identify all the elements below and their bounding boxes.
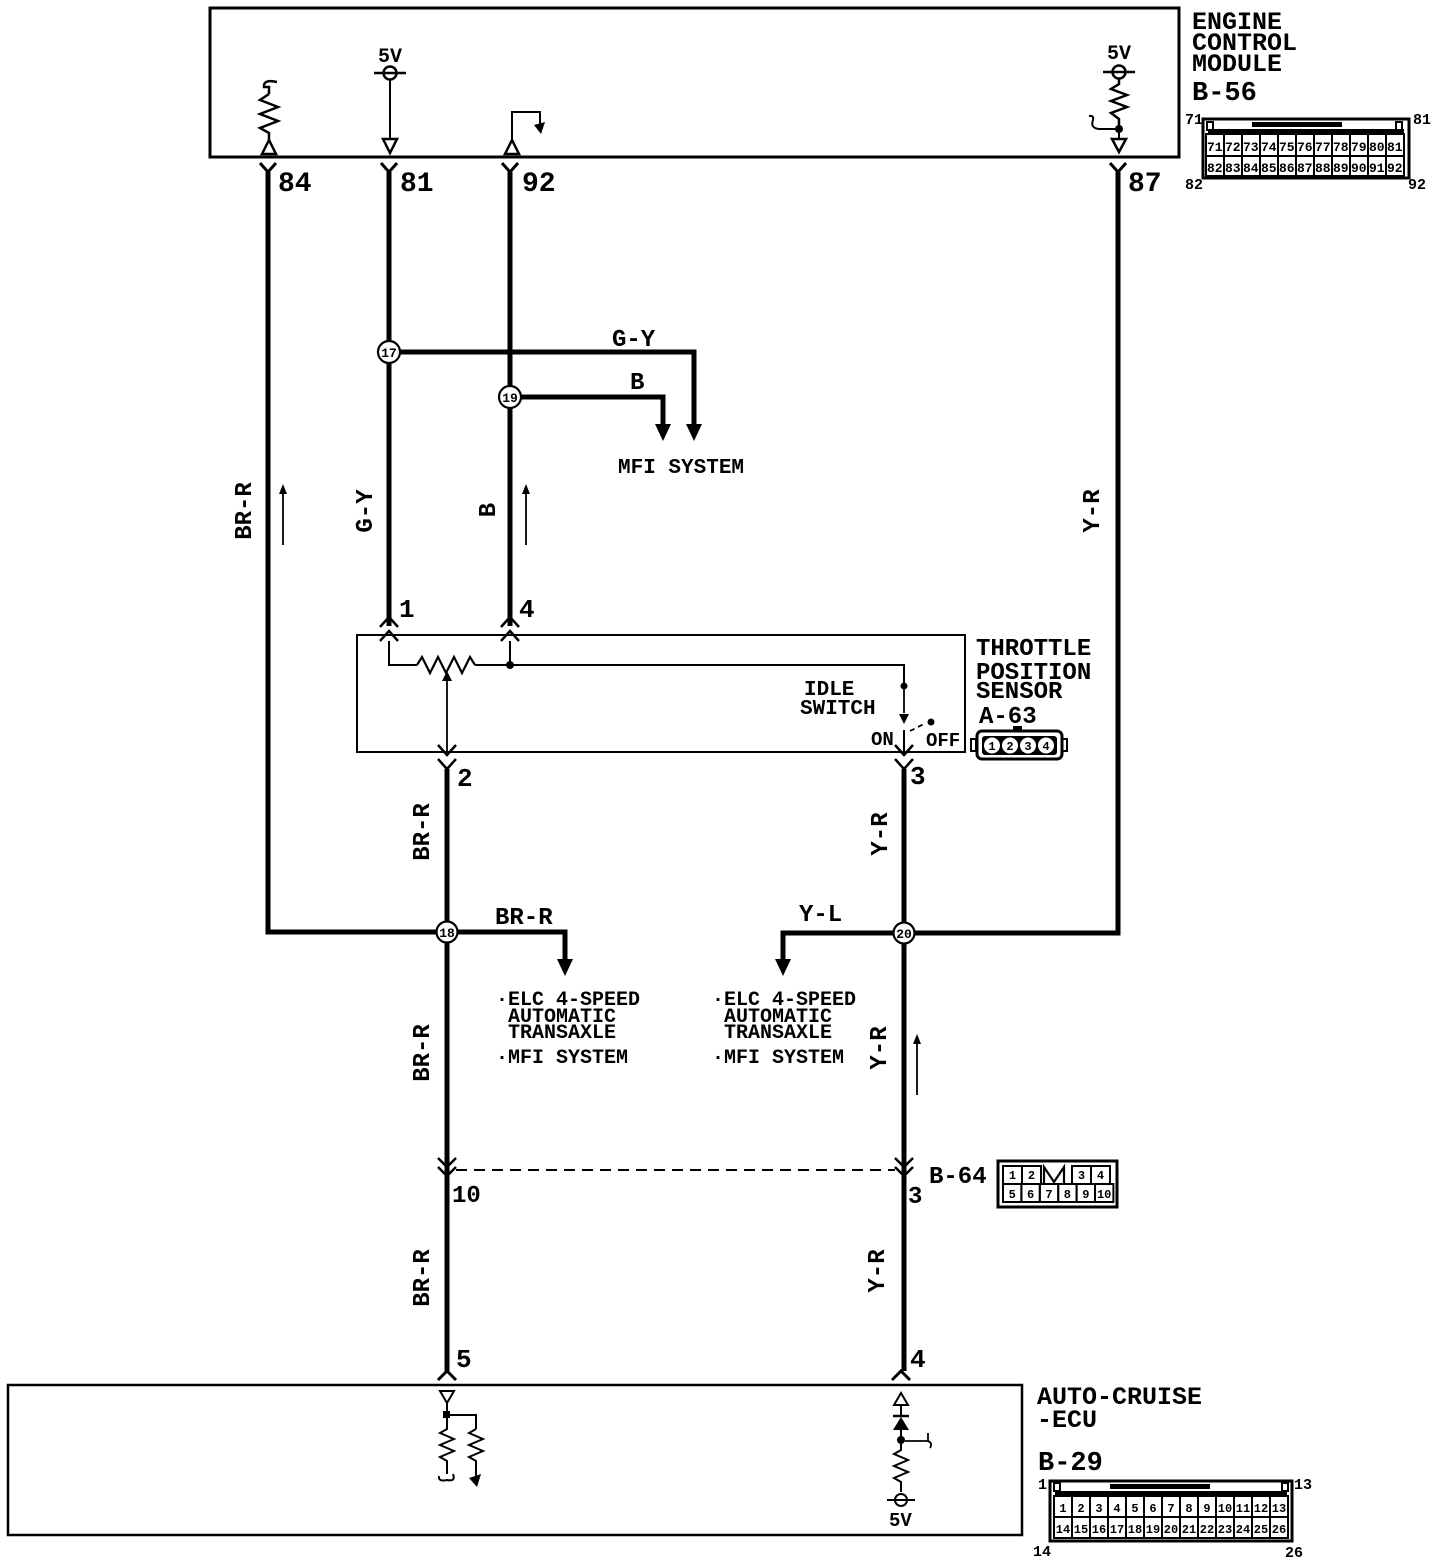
junction dot pin 87 xyxy=(1115,125,1123,133)
svg-text:SENSOR: SENSOR xyxy=(976,679,1063,706)
svg-text:3: 3 xyxy=(1078,1169,1085,1183)
svg-text:1: 1 xyxy=(1038,1477,1047,1494)
svg-text:81: 81 xyxy=(1413,112,1431,129)
connector B-64 body xyxy=(998,1161,1117,1207)
svg-text:1: 1 xyxy=(1059,1502,1066,1516)
svg-text:3: 3 xyxy=(910,762,926,792)
B-64 chevrons right xyxy=(895,1158,913,1176)
svg-text:4: 4 xyxy=(519,595,535,625)
node 19 xyxy=(499,386,521,408)
svg-text:4: 4 xyxy=(1097,1169,1104,1183)
svg-text:-ECU: -ECU xyxy=(1037,1406,1097,1435)
svg-text:OFF: OFF xyxy=(926,730,960,752)
svg-text:74: 74 xyxy=(1261,140,1277,155)
wire BR-R from TPS pin 2 down to ECU pin 5 xyxy=(445,769,450,1371)
pin 1 lead into potentiometer xyxy=(389,641,417,665)
switch branch at pin 4 xyxy=(905,1433,931,1448)
pin 92 fork xyxy=(502,163,518,172)
junction dot pin 4 / track xyxy=(506,661,514,669)
svg-text:7: 7 xyxy=(1167,1502,1174,1516)
pin 4 triangle (output up) xyxy=(894,1393,908,1405)
svg-text:81: 81 xyxy=(400,169,434,200)
svg-text:BR-R: BR-R xyxy=(410,1249,437,1307)
pin 5 lead to junction xyxy=(446,1403,448,1412)
wire G-Y from pin 81 down to TPS pin 1 xyxy=(387,172,392,626)
potentiometer wiper arrow xyxy=(442,671,452,752)
diode body (filled) xyxy=(893,1417,909,1430)
svg-text:9: 9 xyxy=(1203,1502,1210,1516)
node 20 xyxy=(894,923,915,944)
svg-text:Y-R: Y-R xyxy=(867,1026,894,1070)
svg-text:3: 3 xyxy=(908,1184,922,1211)
svg-text:6: 6 xyxy=(1027,1188,1034,1202)
lead diode to junction xyxy=(900,1405,902,1437)
svg-text:23: 23 xyxy=(1218,1523,1232,1537)
svg-text:10: 10 xyxy=(1218,1502,1232,1516)
connector B-56 corner labels xyxy=(1185,112,1431,194)
track to junction and idle switch lead xyxy=(475,665,904,683)
arrowhead G-Y branch xyxy=(686,424,702,441)
svg-text:87: 87 xyxy=(1128,169,1162,200)
svg-text:1: 1 xyxy=(988,740,995,754)
wire Y-R from pin 87 down and left to node 20 xyxy=(904,172,1118,933)
svg-text:78: 78 xyxy=(1333,140,1349,155)
svg-text:4: 4 xyxy=(1113,1502,1120,1516)
ECM-BOX-GROUP xyxy=(210,8,1431,200)
svg-text:10: 10 xyxy=(1097,1188,1111,1202)
svg-text:84: 84 xyxy=(278,169,312,200)
idle switch moving contact xyxy=(899,688,909,724)
5V source circle (bottom) xyxy=(887,1494,915,1506)
svg-text:24: 24 xyxy=(1236,1523,1250,1537)
svg-text:79: 79 xyxy=(1351,140,1367,155)
svg-text:88: 88 xyxy=(1315,161,1331,176)
svg-text:17: 17 xyxy=(1110,1523,1124,1537)
Auto-cruise ECU box outline xyxy=(8,1385,1022,1535)
svg-text:82: 82 xyxy=(1185,177,1203,194)
connector A-63 pins 1-4 xyxy=(984,738,1054,755)
pin 5 triangle (input) xyxy=(440,1391,454,1403)
svg-text:MODULE: MODULE xyxy=(1192,50,1282,79)
svg-text:21: 21 xyxy=(1182,1523,1196,1537)
right pull resistor xyxy=(469,1429,483,1476)
pin 2 chevrons xyxy=(438,745,456,769)
svg-text:19: 19 xyxy=(1146,1523,1160,1537)
B-64 chevrons left xyxy=(438,1158,456,1176)
svg-text:G-Y: G-Y xyxy=(353,489,380,533)
svg-text:75: 75 xyxy=(1279,140,1295,155)
svg-text:B-29: B-29 xyxy=(1038,1449,1103,1479)
svg-text:90: 90 xyxy=(1351,161,1367,176)
svg-text:Y-L: Y-L xyxy=(799,902,842,929)
svg-text:92: 92 xyxy=(1387,161,1403,176)
TPS pin 4 chevrons xyxy=(501,617,519,641)
right resistor arrow end xyxy=(469,1474,481,1487)
svg-text:22: 22 xyxy=(1200,1523,1214,1537)
svg-text:26: 26 xyxy=(1285,1545,1303,1562)
svg-text:18: 18 xyxy=(439,926,455,941)
switch hook at pin 87 xyxy=(1089,116,1115,129)
svg-text:20: 20 xyxy=(896,927,912,942)
svg-text:4: 4 xyxy=(1042,740,1049,754)
wire Y-R from TPS pin 3 down to ECU pin 4 xyxy=(902,769,907,1371)
svg-text:1: 1 xyxy=(399,595,415,625)
svg-text:·MFI SYSTEM: ·MFI SYSTEM xyxy=(496,1047,628,1070)
5V source circle (pin 87) xyxy=(1103,66,1135,79)
svg-text:6: 6 xyxy=(1149,1502,1156,1516)
svg-text:B: B xyxy=(630,370,644,397)
arrowhead Y-L branch xyxy=(775,959,791,976)
svg-text:THROTTLE: THROTTLE xyxy=(976,636,1091,663)
branch Y-L from node 20 to ELC arrow xyxy=(783,933,904,959)
connector B-29 body xyxy=(1050,1481,1292,1541)
diode cathode bar xyxy=(893,1415,909,1418)
svg-text:89: 89 xyxy=(1333,161,1349,176)
potentiometer resistor track xyxy=(417,657,475,673)
svg-text:·MFI SYSTEM: ·MFI SYSTEM xyxy=(712,1047,844,1070)
svg-text:72: 72 xyxy=(1225,140,1241,155)
connector B-29 pin cells row 14-26 xyxy=(1054,1517,1288,1538)
svg-text:B: B xyxy=(476,503,503,517)
svg-text:92: 92 xyxy=(522,169,556,200)
idle switch OFF dot xyxy=(928,719,935,726)
wire BR-R from pin 84 down and right to node 18 xyxy=(268,172,447,932)
connector A-63 body xyxy=(971,726,1067,759)
svg-text:Y-R: Y-R xyxy=(865,1249,892,1293)
pin 81 triangle (output) xyxy=(383,139,397,153)
pin 4 lead xyxy=(509,641,511,665)
svg-text:19: 19 xyxy=(502,391,518,406)
svg-text:3: 3 xyxy=(1095,1502,1102,1516)
ECM box B-56 outline xyxy=(210,8,1179,157)
resistor (pull-up on pin 84) xyxy=(260,81,278,140)
svg-text:5V: 5V xyxy=(1107,43,1131,66)
arrowhead BR-R branch xyxy=(557,959,573,976)
TPS pin 1 chevrons xyxy=(380,617,398,641)
5V source circle (pin 81) xyxy=(374,67,406,80)
pin 84 triangle (input) xyxy=(262,140,276,154)
svg-text:73: 73 xyxy=(1243,140,1259,155)
svg-text:Y-R: Y-R xyxy=(868,812,895,856)
wire B from pin 92 down to TPS pin 4 xyxy=(508,172,513,626)
svg-text:TRANSAXLE: TRANSAXLE xyxy=(508,1022,616,1045)
svg-text:11: 11 xyxy=(1236,1502,1250,1516)
THROTTLE POSITION SENSOR title xyxy=(976,636,1091,706)
svg-text:8: 8 xyxy=(1064,1188,1071,1202)
svg-text:9: 9 xyxy=(1082,1188,1089,1202)
wire from 5V to pin 81 xyxy=(389,80,391,139)
svg-text:2: 2 xyxy=(1006,740,1013,754)
idle switch ON contact lead xyxy=(903,730,905,752)
ECU pin 5 fork xyxy=(438,1371,456,1380)
left pull resistor xyxy=(440,1418,454,1474)
svg-text:2: 2 xyxy=(1077,1502,1084,1516)
pin 3 chevrons xyxy=(895,745,913,769)
left resistor end curl xyxy=(439,1474,454,1481)
svg-text:10: 10 xyxy=(452,1183,481,1210)
node 18 xyxy=(437,922,458,943)
connector B-29 pin cells row 1-13 xyxy=(1054,1496,1288,1517)
svg-text:85: 85 xyxy=(1261,161,1277,176)
junction dot pin 4 xyxy=(897,1436,905,1444)
svg-text:13: 13 xyxy=(1294,1477,1312,1494)
svg-text:13: 13 xyxy=(1272,1502,1286,1516)
svg-text:87: 87 xyxy=(1297,161,1313,176)
branch B from node 19 to MFI arrow xyxy=(510,397,663,424)
branch BR-R from node 18 to ELC arrow xyxy=(447,932,565,959)
svg-text:82: 82 xyxy=(1207,161,1223,176)
svg-text:BR-R: BR-R xyxy=(410,1024,437,1082)
svg-text:71: 71 xyxy=(1185,112,1203,129)
svg-text:2: 2 xyxy=(457,764,473,794)
svg-text:25: 25 xyxy=(1254,1523,1268,1537)
flow arrow up (Y-R) xyxy=(913,1034,921,1095)
TPS-GROUP xyxy=(357,635,1091,794)
svg-text:G-Y: G-Y xyxy=(612,327,656,354)
svg-text:BR-R: BR-R xyxy=(232,482,259,540)
svg-text:80: 80 xyxy=(1369,140,1385,155)
flow arrow up (BR-R) xyxy=(279,484,287,545)
svg-text:16: 16 xyxy=(1092,1523,1106,1537)
svg-text:20: 20 xyxy=(1164,1523,1178,1537)
junction square dot xyxy=(443,1411,450,1418)
svg-text:5: 5 xyxy=(1131,1502,1138,1516)
svg-text:4: 4 xyxy=(910,1345,926,1375)
IDLE SWITCH label xyxy=(800,679,876,721)
arrowhead B branch xyxy=(655,424,671,441)
flow arrow up (B) xyxy=(522,484,530,545)
svg-text:7: 7 xyxy=(1045,1188,1052,1202)
LOWER-GROUP xyxy=(410,769,1117,1371)
BOTTOM-GROUP xyxy=(8,1345,1312,1562)
svg-text:5: 5 xyxy=(456,1345,472,1375)
svg-text:B-56: B-56 xyxy=(1192,79,1257,109)
svg-text:8: 8 xyxy=(1185,1502,1192,1516)
AUTO-CRUISE-ECU title xyxy=(1037,1383,1202,1479)
TPS box A-63 outline xyxy=(357,635,965,752)
connector B-29 corner labels xyxy=(1033,1477,1312,1562)
resistor to pin 87 xyxy=(1111,79,1127,126)
svg-text:A-63: A-63 xyxy=(979,704,1037,731)
svg-text:83: 83 xyxy=(1225,161,1241,176)
svg-text:15: 15 xyxy=(1074,1523,1088,1537)
connector B-56 body xyxy=(1203,119,1409,178)
ELC text block right xyxy=(712,989,856,1070)
pin 84 fork xyxy=(260,163,276,172)
branch G-Y from node 17 to MFI arrow xyxy=(389,352,694,424)
pin 87 triangle (output) xyxy=(1112,139,1126,152)
svg-text:5: 5 xyxy=(1009,1188,1016,1202)
svg-text:B-64: B-64 xyxy=(929,1164,987,1191)
idle switch pivot dot xyxy=(901,683,908,690)
pin 87 fork xyxy=(1110,163,1126,172)
pin 92 triangle (input) xyxy=(505,140,519,154)
svg-text:77: 77 xyxy=(1315,140,1331,155)
svg-text:86: 86 xyxy=(1279,161,1295,176)
svg-text:92: 92 xyxy=(1408,177,1426,194)
svg-text:91: 91 xyxy=(1369,161,1385,176)
svg-text:MFI SYSTEM: MFI SYSTEM xyxy=(618,457,744,480)
ELC text block left xyxy=(496,989,640,1070)
svg-text:2: 2 xyxy=(1028,1169,1035,1183)
svg-text:1: 1 xyxy=(1009,1169,1016,1183)
wire dot to triangle 87 xyxy=(1118,129,1120,139)
svg-text:14: 14 xyxy=(1033,1544,1051,1561)
pin 81 fork xyxy=(381,163,397,172)
ECU pin 4 fork xyxy=(892,1371,910,1380)
svg-text:TRANSAXLE: TRANSAXLE xyxy=(724,1022,832,1045)
svg-text:71: 71 xyxy=(1207,140,1223,155)
svg-text:14: 14 xyxy=(1056,1523,1070,1537)
svg-text:ON: ON xyxy=(871,729,894,751)
svg-text:3: 3 xyxy=(1024,740,1031,754)
WIRES-GROUP xyxy=(232,172,1118,933)
branch to right resistor xyxy=(450,1415,476,1429)
switch symbol on pin 92 xyxy=(512,112,545,139)
resistor to 5V xyxy=(894,1444,908,1492)
svg-text:76: 76 xyxy=(1297,140,1313,155)
svg-text:12: 12 xyxy=(1254,1502,1268,1516)
ENGINE CONTROL MODULE title xyxy=(1192,8,1297,109)
svg-text:BR-R: BR-R xyxy=(495,905,553,932)
svg-text:SWITCH: SWITCH xyxy=(800,698,876,721)
connector B-56 pin cells row 82-92 xyxy=(1206,156,1404,176)
idle switch OFF dashed arm xyxy=(910,723,926,731)
node 17 xyxy=(378,341,400,363)
svg-text:17: 17 xyxy=(381,346,397,361)
svg-text:18: 18 xyxy=(1128,1523,1142,1537)
connector B-56 pin cells row 71-81 xyxy=(1206,134,1404,156)
svg-text:5V: 5V xyxy=(889,1510,912,1532)
svg-text:81: 81 xyxy=(1387,140,1403,155)
svg-text:84: 84 xyxy=(1243,161,1259,176)
B-64 dashed link line xyxy=(456,1169,895,1171)
svg-text:Y-R: Y-R xyxy=(1080,489,1107,533)
svg-text:26: 26 xyxy=(1272,1523,1286,1537)
svg-text:BR-R: BR-R xyxy=(410,803,437,861)
